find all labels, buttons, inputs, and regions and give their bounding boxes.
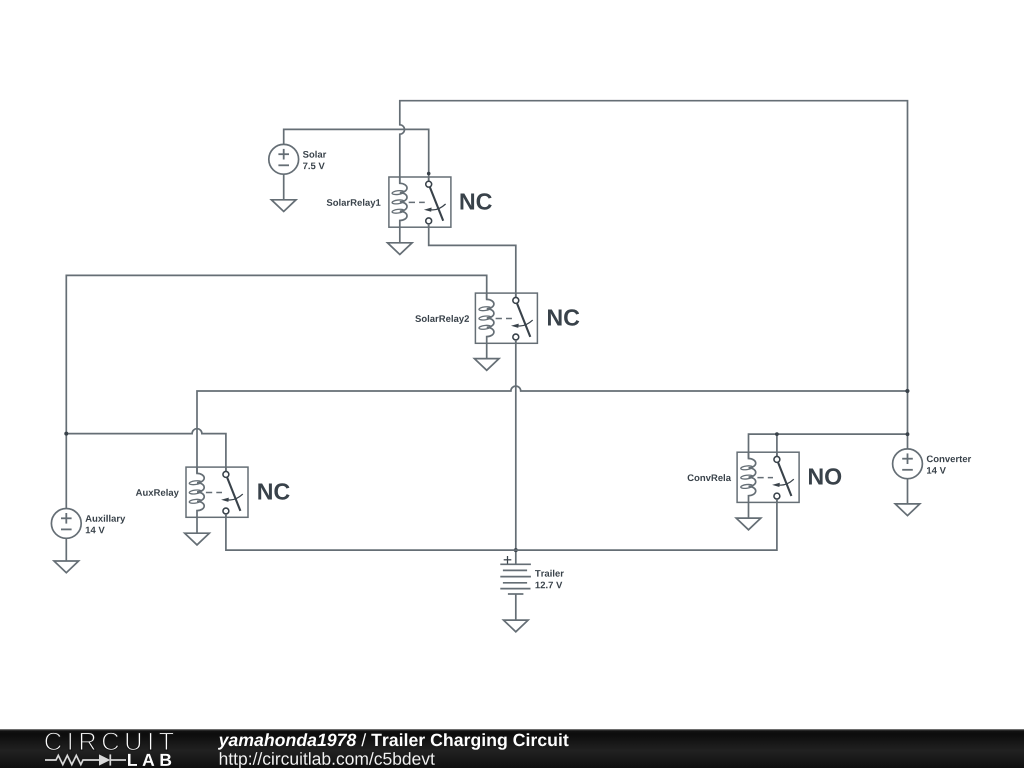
ground for SolarRelay2 coil <box>474 343 499 370</box>
junction: Converter rail dot <box>906 432 910 436</box>
voltage source Solar 7.5 V <box>269 144 299 174</box>
wire: right rail across to AuxRelay coil (hop over battery riser) <box>197 386 907 473</box>
wire: ConvRela switch common pin riser <box>776 434 778 456</box>
ground for Trailer <box>504 620 529 632</box>
ground for ConvRela coil <box>736 502 761 529</box>
CircuitLab logo <box>45 732 174 766</box>
wire: ConvRela coil top across to Converter rail <box>749 434 908 458</box>
wire net: top bus from SolarRelay1 coil to right rail down to Converter (hop over Solar feed) <box>400 101 908 449</box>
label NC state of SolarRelay1 <box>461 193 492 209</box>
label Trailer 12.7 V <box>535 570 564 577</box>
ground for Solar <box>271 174 296 211</box>
relay SolarRelay2 <box>475 293 537 343</box>
ground for Converter <box>895 479 920 516</box>
ground for Auxillary <box>54 538 79 572</box>
wire: SolarRelay1 switch NC contact to SolarRelay2 switch common <box>429 224 516 297</box>
wire: Auxillary positive rail up and across to SolarRelay2 coil <box>66 275 486 508</box>
junction: right rail to mid bus junction dot <box>905 389 909 393</box>
label + polarity mark of Trailer <box>504 556 512 564</box>
label NC state of AuxRelay <box>258 483 289 499</box>
label SolarRelay2 <box>415 315 469 324</box>
battery Trailer 12.7 V <box>500 564 531 620</box>
junction: terminal dot above SolarRelay1 switch pin <box>427 172 431 176</box>
relay SolarRelay1 <box>389 177 451 227</box>
junction: battery top junction dot <box>514 548 518 552</box>
junction: Auxillary rail junction dot <box>64 432 68 436</box>
footer url text <box>220 752 435 768</box>
footer title: yamahonda1978 / Trailer Charging Circuit <box>218 733 356 750</box>
wire: AuxRelay NC contact along battery bus to ConvRela contact <box>226 499 777 550</box>
relay AuxRelay <box>186 467 248 517</box>
label Converter 14 V <box>927 456 971 463</box>
ground for AuxRelay coil <box>185 517 210 545</box>
label Solar 7.5 V <box>303 151 326 158</box>
junction: ConvRela switch tap dot <box>775 432 779 436</box>
label NC state of SolarRelay2 <box>548 309 579 325</box>
label AuxRelay <box>136 489 179 498</box>
wire: SolarRelay2 switch NC contact down to Trailer battery <box>515 340 517 564</box>
wire: Solar positive to SolarRelay1 switch common <box>284 129 429 181</box>
label Auxillary 14 V <box>85 515 125 524</box>
relay ConvRela <box>737 452 799 502</box>
label SolarRelay1 <box>327 199 381 208</box>
voltage source Converter 14 V <box>893 449 923 479</box>
voltage source Auxillary 14 V <box>51 509 81 539</box>
label NO state of ConvRela <box>809 468 841 484</box>
ground for SolarRelay1 coil <box>388 227 413 254</box>
label ConvRela <box>688 474 732 481</box>
wire: Auxillary node to AuxRelay switch common (hop over coil feed) <box>66 429 226 472</box>
